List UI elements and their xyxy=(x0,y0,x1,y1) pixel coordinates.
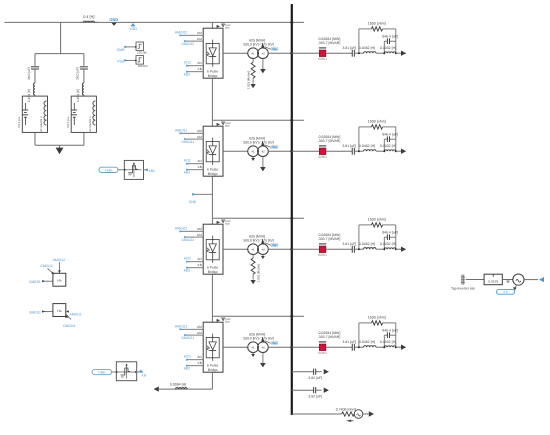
svg-text:KI21: KI21 xyxy=(184,354,191,358)
resistor filter 1500 ohm row 4 xyxy=(368,316,386,326)
capacitor source branch A xyxy=(27,67,39,80)
svg-text:KB2: KB2 xyxy=(184,366,191,370)
transformer T3 xyxy=(243,235,274,255)
wire filter riser row 2 xyxy=(358,127,360,151)
junction module 3 rail / bus xyxy=(290,217,293,220)
wire GM pin stub module 2 xyxy=(195,138,203,140)
breaker BRK3 xyxy=(318,244,327,257)
inductor filter L1 row 3 0.0462 H xyxy=(359,242,376,249)
capacitor source branch B xyxy=(76,67,88,80)
svg-text:BRK1: BRK1 xyxy=(318,351,327,355)
wire filter top branch right row 3 xyxy=(383,224,396,226)
wire filter top branch row 2 xyxy=(359,126,372,128)
junction module 4 rail / bus xyxy=(290,315,293,318)
svg-text:BRK1: BRK1 xyxy=(318,155,327,159)
signal label CMR xyxy=(117,46,128,53)
svg-text:GMGI12: GMGI12 xyxy=(181,42,194,46)
svg-text:VSD: VSD xyxy=(117,60,125,64)
svg-text:Bus: Bus xyxy=(225,27,230,30)
svg-text:0.1032 [H]: 0.1032 [H] xyxy=(380,340,396,344)
svg-text:GM: GM xyxy=(197,37,202,41)
svg-text:946.4 [uF]: 946.4 [uF] xyxy=(382,328,398,332)
module 1 corner glyph xyxy=(217,24,231,30)
svg-text:-303.7 [MVAR]: -303.7 [MVAR] xyxy=(318,41,341,45)
svg-text:Ha: Ha xyxy=(57,279,61,283)
svg-text:#2: #2 xyxy=(262,248,266,252)
wire AM pin stub module 3 xyxy=(195,230,203,232)
signal label KI21 xyxy=(184,354,191,361)
svg-text:0.0125: 0.0125 xyxy=(488,280,498,284)
capacitor filter C1 row 1 3.81 uF xyxy=(342,46,356,57)
six-pulse bridge U4 xyxy=(197,322,223,372)
tap input transformer T3 xyxy=(261,239,278,248)
svg-text:KI11: KI11 xyxy=(184,158,191,162)
junction module 2 rail / bus xyxy=(290,119,293,122)
wire CMR to lag block G1 xyxy=(126,46,136,48)
inductor filter L1 row 4 0.0462 H xyxy=(359,340,376,347)
svg-text:KB2: KB2 xyxy=(149,169,156,173)
wire GMGI11 to GM pin xyxy=(186,138,196,140)
svg-text:KI22: KI22 xyxy=(184,256,191,260)
wire filter top branch right row 1 xyxy=(383,28,396,30)
svg-text:#1: #1 xyxy=(251,52,255,56)
inductor filter L2 row 1 0.1032 H xyxy=(380,46,396,53)
svg-text:GM: GM xyxy=(197,331,202,335)
svg-text:KB2: KB2 xyxy=(184,170,191,174)
inductor filter L2 row 4 0.1032 H xyxy=(380,340,396,347)
wire GM pin stub module 3 xyxy=(195,236,203,238)
wire mid-chain stub xyxy=(194,193,212,195)
svg-text:KB: KB xyxy=(198,165,202,169)
wire module 1 top pin xyxy=(211,22,213,28)
wire AMGI22 to AM pin xyxy=(181,230,195,232)
svg-text:#2: #2 xyxy=(262,346,266,350)
svg-text:0.4 [H]: 0.4 [H] xyxy=(83,15,94,19)
svg-text:GND: GND xyxy=(189,200,197,204)
svg-text:KI12: KI12 xyxy=(184,60,191,64)
svg-text:0.1032 [H]: 0.1032 [H] xyxy=(380,144,396,148)
capacitor filter C1 row 2 3.81 uF xyxy=(342,144,356,155)
wire KI12 to AO pin xyxy=(188,65,204,67)
signal label KB2 output (mid) xyxy=(145,168,156,173)
transformer T4 xyxy=(243,333,274,353)
breaker BRK1 xyxy=(318,48,327,61)
signal label AMGI21 xyxy=(175,324,188,330)
junction filter node A row 4 xyxy=(358,346,360,348)
svg-text:0.0462 [H]: 0.0462 [H] xyxy=(359,144,375,148)
svg-text:3.81 [uF]: 3.81 [uF] xyxy=(342,242,356,246)
inductor source branch A xyxy=(27,83,35,102)
wire module 1 AC output xyxy=(223,52,248,54)
signal label VSD input xyxy=(117,59,128,64)
svg-text:GMES2: GMES2 xyxy=(29,310,41,314)
junction filter node C row 1 xyxy=(395,52,397,54)
svg-text:KB: KB xyxy=(198,361,202,365)
svg-text:KB: KB xyxy=(198,263,202,267)
signal source TIME (bottom) xyxy=(92,369,112,374)
svg-text:1500 [ohm]: 1500 [ohm] xyxy=(368,316,386,320)
wire filter riser row 3 xyxy=(358,225,360,249)
svg-text:GND: GND xyxy=(109,17,118,22)
wire module 2 top rail to bus xyxy=(212,119,304,121)
svg-text:AMGI11: AMGI11 xyxy=(70,312,82,316)
svg-text:BRK1: BRK1 xyxy=(318,57,327,61)
wire filter node A row 2 xyxy=(354,150,363,152)
signal label AMGI22 xyxy=(175,226,188,232)
wire T4 to AC bus xyxy=(268,346,292,348)
svg-text:GMGI21: GMGI21 xyxy=(181,336,194,340)
svg-text:AMGI21: AMGI21 xyxy=(175,324,188,328)
signal label GMGI11 output (Ha2) xyxy=(63,315,76,328)
junction filter node B row 2 xyxy=(383,150,385,152)
series impedance block 0.0125 xyxy=(484,274,502,285)
signal label GMGI22 xyxy=(181,236,194,242)
signal label KB2 xyxy=(184,169,191,175)
signal label AMGI12 xyxy=(175,30,188,36)
wire AM pin stub module 2 xyxy=(195,132,203,134)
svg-text:3.82 [uF]: 3.82 [uF] xyxy=(308,376,322,380)
junction filter node A row 2 xyxy=(358,150,360,152)
wire source bottom horizontal xyxy=(35,144,84,146)
ground T2 primary xyxy=(251,157,255,161)
control pill tap inverter xyxy=(497,289,515,294)
svg-text:946.4 [uF]: 946.4 [uF] xyxy=(382,230,398,234)
wire module 3 bottom pin to next module xyxy=(211,274,213,316)
ground T2 secondary xyxy=(260,157,266,172)
wire DC return horizontal xyxy=(159,388,213,390)
wire AMGI12 to AM pin xyxy=(181,34,195,36)
svg-text:AO: AO xyxy=(197,159,202,163)
junction filter node B row 4 xyxy=(383,346,385,348)
svg-text:0.0462 [H]: 0.0462 [H] xyxy=(359,340,375,344)
svg-text:GMGI11: GMGI11 xyxy=(182,140,195,144)
junction top rail / bus xyxy=(290,21,293,24)
svg-text:GM: GM xyxy=(197,233,202,237)
wire filter node A row 3 xyxy=(354,248,363,250)
svg-text:0.151 [H]: 0.151 [H] xyxy=(76,89,80,102)
svg-text:KB: KB xyxy=(142,373,147,377)
transformer T1 xyxy=(243,39,274,59)
wire breaker to filter cap row 4 xyxy=(326,346,352,348)
svg-text:AO: AO xyxy=(197,61,202,65)
junction filter node B row 1 xyxy=(383,52,385,54)
svg-text:Tap: Tap xyxy=(272,341,277,345)
wire KB2 to KB pin xyxy=(188,365,204,367)
svg-text:VSD: VSD xyxy=(129,27,137,31)
signal tag source output xyxy=(539,277,544,282)
svg-text:0.0462 [H]: 0.0462 [H] xyxy=(359,46,375,50)
interface block Ha1 xyxy=(53,273,66,286)
svg-text:Vd 1 p.u.: Vd 1 p.u. xyxy=(66,116,70,128)
junction filter node A row 1 xyxy=(358,52,360,54)
junction T1 / bus xyxy=(290,52,293,55)
svg-text:500.0 [kV] / 175 [kV]: 500.0 [kV] / 175 [kV] xyxy=(243,239,274,243)
signal label KB2 xyxy=(184,365,191,371)
ground source network xyxy=(56,148,64,155)
breaker BRK2 xyxy=(318,146,327,159)
wire module 4 bottom pin xyxy=(211,372,213,389)
wire GMGI22 to GM pin xyxy=(186,236,196,238)
module 3 corner glyph xyxy=(217,220,231,226)
comparator block (deblock timer bottom) xyxy=(116,362,137,381)
ground label GND mid-chain xyxy=(189,193,197,204)
wire GM pin stub module 1 xyxy=(195,40,203,42)
comparator block (deblock timer mid) xyxy=(124,160,144,179)
capacitor filter 946.4 uF row 3 xyxy=(382,230,398,240)
svg-text:Tap: Tap xyxy=(272,47,277,51)
wire module 4 top rail to bus xyxy=(212,315,304,317)
wire bus to breaker BRK3 xyxy=(292,248,320,250)
signal label KI12 xyxy=(184,60,191,67)
wire filter to ground row 1 xyxy=(396,52,401,54)
signal label GMGI11 xyxy=(182,138,195,144)
capacitor filter 946.4 uF row 2 xyxy=(382,132,398,142)
wire between filter inductors row 1 xyxy=(376,52,384,54)
wire source branch B lower xyxy=(83,132,85,145)
svg-text:500.0 [kV] / 175 [kV]: 500.0 [kV] / 175 [kV] xyxy=(243,43,274,47)
capacitor DC branch 1 3.82 [uF] xyxy=(308,369,322,381)
ground neutral branch xyxy=(369,411,374,416)
svg-text:26.0 [uF]: 26.0 [uF] xyxy=(27,67,31,80)
wire VSD to lag block G2 xyxy=(126,59,136,61)
svg-text:100.0m: 100.0m xyxy=(138,64,149,68)
module 2 corner glyph xyxy=(217,122,231,128)
wire filter to ground row 4 xyxy=(396,346,401,348)
voltmeter VSD on top rail xyxy=(129,23,137,31)
pin dot comparator output bottom xyxy=(135,371,137,373)
svg-text:TIME: TIME xyxy=(98,371,105,375)
wire T2 to AC bus xyxy=(268,150,292,152)
svg-text:AMGI12: AMGI12 xyxy=(53,258,66,262)
ground DC branch 1 xyxy=(324,369,329,374)
ground T4 primary xyxy=(251,353,255,357)
tap input transformer T2 xyxy=(261,141,278,150)
svg-text:#2: #2 xyxy=(262,150,266,154)
tap input transformer T1 xyxy=(261,43,278,52)
wire bus to breaker BRK1 xyxy=(292,52,320,54)
svg-text:KB: KB xyxy=(198,67,202,71)
wire TIME bottom to comparator xyxy=(112,371,117,373)
svg-text:3.81 [uF]: 3.81 [uF] xyxy=(342,46,356,50)
svg-text:Bus: Bus xyxy=(225,223,230,226)
inductor filter L1 row 2 0.0462 H xyxy=(359,144,376,151)
wire AM pin stub module 4 xyxy=(195,328,203,330)
wire AM pin stub module 1 xyxy=(195,34,203,36)
wire source branch A lower xyxy=(34,132,36,145)
svg-text:GMES1: GMES1 xyxy=(29,280,41,284)
wire comparator bottom output xyxy=(137,371,140,373)
signal source TIME (mid) xyxy=(99,167,118,172)
interface block Ha2 xyxy=(53,304,66,317)
svg-text:500.0 [kV] / 175 [kV]: 500.0 [kV] / 175 [kV] xyxy=(243,337,274,341)
svg-text:GMGI22: GMGI22 xyxy=(181,238,194,242)
svg-text:0.1032 [H]: 0.1032 [H] xyxy=(380,46,396,50)
svg-text:Tap Inverter site: Tap Inverter site xyxy=(451,287,475,291)
ground filter row 3 xyxy=(401,247,406,252)
svg-text:TIME: TIME xyxy=(105,169,112,173)
svg-text:AO: AO xyxy=(197,257,202,261)
svg-text:Bridge: Bridge xyxy=(208,172,218,176)
wire T1 to AC bus xyxy=(268,52,292,54)
resistor filter 1500 ohm row 2 xyxy=(368,120,386,130)
inductor filter L1 row 1 0.0462 H xyxy=(359,46,376,53)
wire KI21 to AO pin xyxy=(188,359,204,361)
svg-text:#1: #1 xyxy=(251,346,255,350)
wire source top horizontal xyxy=(35,53,84,55)
wire between filter inductors row 2 xyxy=(376,150,384,152)
svg-text:1500 [ohm]: 1500 [ohm] xyxy=(368,218,386,222)
signal label KI22 xyxy=(184,256,191,263)
wire filter top branch right row 2 xyxy=(383,126,396,128)
wire filter right drop row 3 xyxy=(395,225,397,249)
wire filter top branch row 1 xyxy=(359,28,372,30)
wire filter right drop row 4 xyxy=(395,323,397,347)
svg-text:1500 [ohm]: 1500 [ohm] xyxy=(368,22,386,26)
wire module 4 top pin xyxy=(211,316,213,322)
svg-text:ac source v: ac source v xyxy=(88,116,92,132)
wire ground stub source network xyxy=(59,145,61,148)
wire comparator output KB2 xyxy=(144,169,148,171)
six-pulse bridge U2 xyxy=(197,126,223,176)
svg-text:AMGI11: AMGI11 xyxy=(175,128,187,132)
wire filter to ground row 2 xyxy=(396,150,401,152)
ground filter row 4 xyxy=(401,345,406,350)
svg-text:100.0m: 100.0m xyxy=(137,50,148,54)
ground DC branch 2 xyxy=(324,388,329,393)
wire AMGI21 to AM pin xyxy=(181,328,195,330)
junction filter node C row 2 xyxy=(395,150,397,152)
wire source tap riser xyxy=(60,22,62,53)
svg-text:500.0 [kV] / 175 [kV]: 500.0 [kV] / 175 [kV] xyxy=(243,141,274,145)
ground label GND on top rail xyxy=(109,17,118,26)
svg-text:Ha: Ha xyxy=(57,309,61,313)
resistor filter 1500 ohm row 1 xyxy=(368,22,386,32)
svg-text:GMGI12: GMGI12 xyxy=(40,264,53,268)
svg-text:#1: #1 xyxy=(251,150,255,154)
svg-text:0.0: 0.0 xyxy=(504,290,508,294)
resistor grounding T1 primary xyxy=(246,59,255,90)
signal label AMGI11 output (Ha2) xyxy=(66,310,82,316)
svg-text:KB2: KB2 xyxy=(184,268,191,272)
ground filter row 1 xyxy=(401,51,406,56)
signal label GMGI21 xyxy=(181,334,194,340)
wire filter node A row 1 xyxy=(354,52,363,54)
lag block G2 (smoothing) xyxy=(135,56,148,68)
svg-text:26.0 [uF]: 26.0 [uF] xyxy=(76,67,80,80)
source box A (left AC source) xyxy=(17,96,48,132)
svg-text:Tap: Tap xyxy=(272,243,277,247)
six-pulse bridge U3 xyxy=(197,224,223,274)
wire termination to series block xyxy=(466,279,484,281)
wire filter top branch right row 4 xyxy=(383,322,396,324)
wire source branch A mid xyxy=(34,69,36,83)
wire source branch B upper riser xyxy=(83,54,85,66)
wire module 3 AC output xyxy=(223,248,248,250)
ground T4 secondary xyxy=(260,353,266,368)
node DC bus (vertical) xyxy=(291,4,293,415)
junction T3 / bus xyxy=(290,248,293,251)
resistor grounding T3 primary xyxy=(251,255,261,285)
signal label AMGI11 xyxy=(175,128,187,134)
wire block to source xyxy=(502,280,513,283)
wire neutral branch xyxy=(292,413,342,415)
wire Ha2 diagonal output xyxy=(66,314,71,320)
wire GMGI12 to GM pin xyxy=(186,40,196,42)
svg-text:3.81 [uF]: 3.81 [uF] xyxy=(342,144,356,148)
svg-text:ac source v: ac source v xyxy=(39,116,43,132)
svg-text:3.82 [uF]: 3.82 [uF] xyxy=(308,395,322,399)
svg-text:0.1032 [H]: 0.1032 [H] xyxy=(380,242,396,246)
svg-text:AMGI22: AMGI22 xyxy=(175,226,188,230)
wire filter mid drop row 4 xyxy=(383,335,385,347)
junction T2 / bus xyxy=(290,150,293,153)
wire breaker to filter cap row 3 xyxy=(326,248,352,250)
wire KB2 to KB pin xyxy=(188,267,204,269)
svg-text:KB2: KB2 xyxy=(184,72,191,76)
wire source branch B mid xyxy=(83,69,85,83)
svg-text:#2: #2 xyxy=(262,52,266,56)
signal label KB2 xyxy=(184,267,191,273)
wire source branch A to box xyxy=(34,95,36,96)
svg-text:946.4 [uF]: 946.4 [uF] xyxy=(382,132,398,136)
wire source output xyxy=(524,279,538,281)
wire AMGI11 to AM pin xyxy=(181,132,195,134)
junction filter node A row 3 xyxy=(358,248,360,250)
wire between filter inductors row 3 xyxy=(376,248,384,250)
wire module 2 AC output xyxy=(223,150,248,152)
wire GMGI12 diagonal to Ha1 xyxy=(48,268,55,274)
ground T3 secondary xyxy=(261,255,265,259)
wire module 3 top rail to bus xyxy=(212,217,304,219)
wire filter to ground row 3 xyxy=(396,248,401,250)
wire top DC rail right segment to bus stub xyxy=(212,21,304,23)
svg-text:CMR: CMR xyxy=(117,48,125,52)
wire between filter inductors row 4 xyxy=(376,346,384,348)
svg-text:946.4 [uF]: 946.4 [uF] xyxy=(382,34,398,38)
svg-text:BRK1: BRK1 xyxy=(318,253,327,257)
wire DC capacitor branch 1 xyxy=(292,371,314,373)
svg-text:AM: AM xyxy=(197,227,202,231)
wire filter top branch row 4 xyxy=(359,322,372,324)
signal label KI11 xyxy=(184,158,191,165)
capacitor filter 946.4 uF row 4 xyxy=(382,328,398,338)
cable termination tap inverter xyxy=(451,275,475,291)
wire bus to breaker BRK4 xyxy=(292,346,320,348)
svg-text:0.0094 [H]: 0.0094 [H] xyxy=(170,382,186,386)
DC line continuation arrow (left) xyxy=(154,386,159,391)
signal label KB output (bottom) xyxy=(138,370,147,378)
wire TIME to comparator xyxy=(118,169,124,171)
wire T3 to AC bus xyxy=(268,248,292,250)
ground tap inverter source xyxy=(513,285,517,291)
ground filter row 2 xyxy=(401,149,406,154)
wire filter mid drop row 3 xyxy=(383,237,385,249)
svg-text:#1: #1 xyxy=(251,248,255,252)
junction filter node C row 3 xyxy=(395,248,397,250)
inductor source branch B xyxy=(76,83,84,102)
lag block G1 (smoothing) xyxy=(135,42,147,54)
wire GM pin stub module 4 xyxy=(195,334,203,336)
tap input transformer T4 xyxy=(261,337,278,346)
svg-text:1.003 [Mohm]: 1.003 [Mohm] xyxy=(246,71,250,90)
junction T4 / bus xyxy=(290,346,293,349)
wire module 4 AC output xyxy=(223,346,248,348)
module 4 corner glyph xyxy=(217,318,231,324)
svg-text:1500 [ohm]: 1500 [ohm] xyxy=(368,120,386,124)
wire filter riser row 4 xyxy=(358,323,360,347)
source tap inverter xyxy=(513,274,524,285)
signal label GMGI12 xyxy=(181,40,194,46)
